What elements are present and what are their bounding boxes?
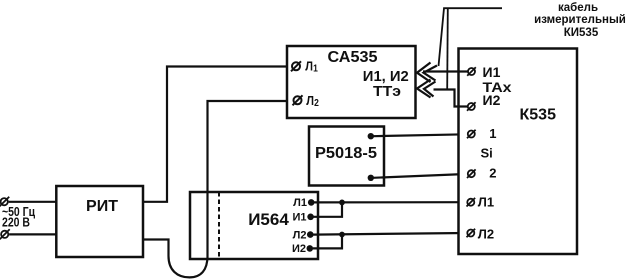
terminal И1 (К535) [467,64,500,80]
terminal И2 (И564) [292,243,313,255]
svg-text:КИ535: КИ535 [564,27,599,39]
svg-text:Л2: Л2 [293,229,307,241]
wire (through И564 window, redrawn over box) [206,192,208,259]
block К535 [459,49,578,255]
terminal И2 (К535) [467,92,501,111]
block РИТ [56,186,143,257]
svg-text:2: 2 [489,166,496,181]
svg-text:РИТ: РИТ [86,198,118,215]
terminal Л2 (К535) [467,227,495,242]
svg-text:К535: К535 [520,107,557,124]
input terminal X1 (~50 Гц) [0,197,9,207]
svg-text:И1: И1 [483,64,501,80]
connector arrow (кабель КИ535, upper) [417,63,437,83]
wire [313,235,342,249]
svg-text:Л2: Л2 [478,227,494,242]
block Р5018-5 [309,127,384,186]
terminal Л1 (И564) [293,197,314,209]
block И564 [190,192,318,259]
wire [423,70,468,72]
terminal Л2 (И564) [293,229,314,241]
junction [339,200,345,206]
svg-text:Р5018-5: Р5018-5 [315,145,377,162]
svg-text:И564: И564 [248,210,289,229]
svg-text:И2: И2 [292,243,306,255]
wire [314,202,343,216]
wire [434,90,468,107]
wire [9,233,56,235]
terminal (Р5018-5 pin 2) [368,175,374,181]
svg-text:220 В: 220 В [2,216,30,230]
svg-text:измерительный: измерительный [534,14,626,26]
wire [314,201,466,203]
input terminal X2 (220 В) [0,229,10,239]
terminal Л1 (СА535) [291,59,318,75]
svg-text:И2: И2 [483,92,501,108]
svg-text:Л1: Л1 [293,197,307,209]
terminal 2 (К535) [467,166,497,181]
svg-text:Л1: Л1 [478,195,494,210]
wire [9,201,57,203]
label И1, И2 ТТэ (inside СА535) [363,68,409,100]
block СА535 [287,46,416,118]
svg-text:Si: Si [481,146,493,161]
terminal И1 (И564) [292,212,313,224]
terminal (Р5018-5 pin 1) [368,133,374,139]
svg-text:кабель: кабель [558,2,598,14]
leader line (кабель измерительный КИ535) [439,8,503,88]
wire [373,174,466,178]
label кабель измерительный КИ535 [534,2,626,39]
svg-text:СА535: СА535 [328,49,378,66]
svg-text:ТТэ: ТТэ [373,83,401,100]
svg-text:1: 1 [489,126,496,141]
connector arrow (кабель КИ535, lower) [417,80,436,98]
wire [314,233,466,235]
terminal Л1 (К535) [467,195,495,210]
junction [339,232,345,238]
wire [143,67,291,202]
terminal 1 (К535) [467,126,497,141]
svg-text:И1: И1 [292,212,306,224]
wire [143,101,293,277]
terminal Л2 (СА535) [293,93,320,109]
wire [373,134,466,136]
